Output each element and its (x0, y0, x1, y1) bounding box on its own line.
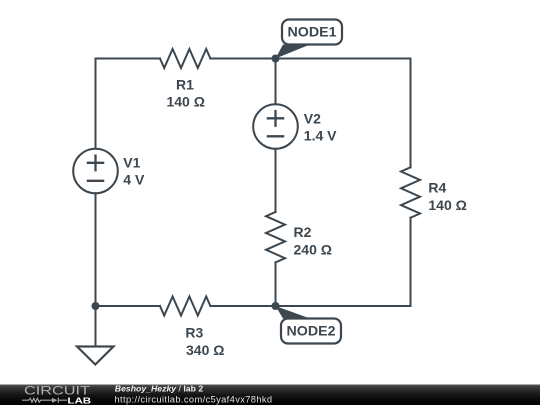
V1 plus sign (88, 156, 103, 171)
junction node dot ground tee (92, 302, 100, 310)
svg-text:240 Ω: 240 Ω (294, 242, 332, 258)
voltage source V2 (253, 104, 298, 149)
wire top horizontal left of R1 (96, 59, 161, 149)
wire right vertical upper (410, 59, 412, 168)
svg-text:4 V: 4 V (123, 171, 145, 187)
svg-text:Beshoy_Hezky / lab 2: Beshoy_Hezky / lab 2 (115, 384, 204, 394)
V2 minus sign (268, 135, 283, 137)
ground symbol (77, 347, 114, 365)
wire middle branch upper (275, 59, 277, 105)
svg-text:R4: R4 (428, 179, 446, 195)
wire bottom horizontal right of R3 (210, 305, 410, 307)
svg-text:NODE2: NODE2 (287, 324, 336, 339)
wire middle branch lower (275, 262, 277, 306)
V1 minus sign (88, 180, 103, 182)
svg-text:NODE1: NODE1 (288, 25, 338, 40)
resistor R3 (160, 297, 210, 316)
svg-text:V2: V2 (304, 110, 321, 126)
svg-text:R2: R2 (294, 224, 312, 240)
svg-text:140 Ω: 140 Ω (166, 94, 204, 110)
wire middle branch between V2 and R2 (275, 149, 277, 212)
svg-text:LAB: LAB (67, 395, 91, 405)
svg-text:http://circuitlab.com/c5yaf4vx: http://circuitlab.com/c5yaf4vx78hkd (115, 395, 273, 405)
node NODE2 flag tail (276, 306, 311, 319)
wire left vertical lower (95, 193, 97, 306)
node NODE2 flag box (281, 319, 341, 344)
junction node dot NODE2 (272, 302, 280, 310)
svg-text:1.4 V: 1.4 V (304, 128, 337, 144)
svg-text:R1: R1 (176, 77, 194, 93)
junction node dot NODE1 (272, 55, 280, 63)
wire bottom horizontal left of R3 (96, 305, 161, 307)
svg-text:R3: R3 (185, 325, 203, 341)
resistor R1 (160, 49, 210, 68)
node NODE1 flag tail (276, 45, 311, 59)
V2 plus sign (268, 111, 283, 126)
resistor R4 (401, 167, 420, 217)
logo resistor squiggle and diode (22, 398, 67, 403)
resistor R2 (266, 212, 285, 262)
wire ground lead (95, 306, 97, 347)
svg-text:V1: V1 (123, 154, 140, 170)
voltage source V1 (73, 149, 118, 194)
svg-text:340 Ω: 340 Ω (186, 342, 224, 358)
node NODE1 flag box (282, 20, 342, 45)
wire right vertical lower (410, 218, 412, 306)
svg-text:140 Ω: 140 Ω (428, 197, 466, 213)
wire top horizontal right of R1 (210, 58, 410, 60)
